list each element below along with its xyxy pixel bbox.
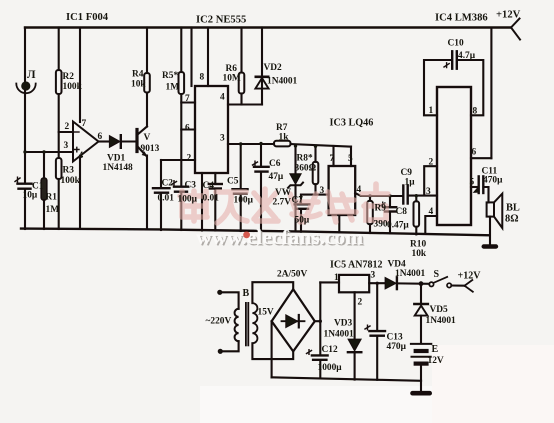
svg-text:S: S [434,269,440,280]
svg-text:Л: Л [27,69,36,81]
svg-text:12V: 12V [428,356,444,366]
bridge rectifier 2A/50V [272,289,315,351]
capacitor C7 [295,195,310,232]
diode VD4 [385,277,397,289]
node +12V supply terminal [511,19,520,40]
svg-text:3: 3 [426,187,431,197]
resistor R3 [56,158,62,229]
svg-text:VW: VW [275,188,292,198]
svg-text:IC5 AN7812: IC5 AN7812 [330,260,383,271]
svg-text:3: 3 [320,186,325,196]
capacitor C13 [365,283,385,380]
svg-text:VD2: VD2 [264,63,283,73]
svg-text:4: 4 [429,207,434,217]
svg-text:470μ: 470μ [387,342,407,352]
capacitor C5 [233,144,248,231]
wire IC2 pin 1 to ground rail [201,173,203,231]
svg-text:IC4 LM386: IC4 LM386 [435,13,488,24]
capacitor C6 [253,143,269,231]
wire IC5 pin 3 out [369,282,385,284]
capacitor C11 [474,176,484,193]
wire IC2 pin 4 [228,103,262,105]
wire IC3 pin 4 output [355,193,403,196]
ground (speaker) [484,244,496,248]
resistor R8 [313,146,319,195]
node mains terminal top [218,290,222,294]
resistor R4 [144,28,150,127]
node mains terminal bottom [218,349,222,353]
wire secondary top to bridge [252,282,293,303]
svg-text:2A/50V: 2A/50V [277,270,307,280]
svg-text:1000μ: 1000μ [318,363,343,373]
svg-text:R2: R2 [63,72,75,82]
resistor R2 [56,28,62,159]
wire microphone down to node A [24,91,26,153]
svg-text:3: 3 [220,134,225,144]
wire mains top to transformer [222,292,239,309]
wire op-amp output pin 6 [99,140,110,142]
transistor V 9013 [137,127,147,157]
wire speaker to ground [489,217,491,245]
IC3 LQ46 body [329,166,356,215]
svg-text:1μ: 1μ [405,178,416,188]
svg-text:R7: R7 [276,123,288,133]
svg-text:4: 4 [79,151,84,161]
wire IC2 pin 7 [181,101,195,103]
watermark brush characters [180,184,388,223]
svg-text:IC2 NE555: IC2 NE555 [196,15,246,26]
svg-text:1M: 1M [46,205,60,215]
svg-text:R5*: R5* [162,71,178,81]
speaker BL [487,194,503,228]
wire R7 to IC3 [291,144,352,147]
svg-text:0.01: 0.01 [203,194,220,204]
svg-text:R3: R3 [63,166,75,176]
resistor R1 [41,152,47,229]
svg-text:VD4: VD4 [388,260,407,270]
resistor R5 [179,28,185,187]
svg-text:1N4148: 1N4148 [103,163,134,173]
capacitor C9 (series) [403,186,407,204]
svg-text:0.47μ: 0.47μ [387,221,409,231]
battery E 12V [411,344,431,391]
svg-text:6: 6 [98,132,103,142]
wire IC5 pin 2 down [354,292,356,339]
diode VD1 [110,135,121,148]
svg-text:3: 3 [64,141,69,151]
svg-text:3: 3 [371,271,376,281]
diode VD3 [348,339,361,379]
wire rail to microphone [24,28,26,82]
watermark www.elecfans.com [196,225,365,251]
svg-text:4.7μ: 4.7μ [458,51,476,61]
svg-text:IC1 F004: IC1 F004 [66,12,109,23]
node junction dots [23,142,418,323]
wire VD4 to switch [398,282,429,284]
capacitor C1 [15,152,32,229]
svg-text:4: 4 [357,185,362,195]
wire VD1 to transistor base [122,140,136,142]
svg-text:5: 5 [470,178,475,188]
svg-text:E: E [432,344,439,355]
capacitor C2 [153,160,170,230]
wire transistor emitter to ground rail [146,156,148,230]
resistor R6 [239,28,245,105]
wire node A to op-amp pin 3 [25,151,73,153]
wire IC4 pin 4 to ground rail [425,216,437,234]
svg-text:VD3: VD3 [334,319,353,329]
wire C9 to IC4 pin 3 [408,195,437,197]
wire C10 loop pin 1 [424,60,451,115]
wire IC4 pin 6 [471,157,491,159]
svg-text:10k: 10k [131,80,146,90]
capacitor C10 [444,51,457,68]
svg-text:C5: C5 [227,177,239,187]
svg-text:1: 1 [429,106,434,116]
svg-text:2: 2 [358,298,363,308]
transformer core [246,303,248,346]
transformer B secondary winding [252,303,257,343]
node VD5 junction [419,282,423,286]
wire IC3 pin 5 [350,147,352,166]
wire IC2 pin 6 [181,128,195,130]
svg-text:R10: R10 [410,240,426,250]
svg-text:1N4001: 1N4001 [395,269,426,279]
wire C12 to IC5 pin 1 [320,281,339,283]
transformer B primary winding [235,309,239,341]
op-amp IC1a [73,122,99,162]
svg-text:8: 8 [473,107,478,117]
wire C11 to speaker [484,187,489,202]
svg-text:B: B [243,288,250,299]
resistor R10 [414,196,420,235]
svg-text:BL: BL [506,203,520,214]
wire IC2 to rail left [190,28,192,87]
wire IC2 pin 8 to rail [207,28,209,87]
svg-text:C7: C7 [292,196,304,206]
IC2 NE555 body [195,86,228,173]
diode VD5 [414,284,427,344]
svg-text:V: V [144,133,151,143]
wire C10 loop pin 8 [459,60,484,115]
svg-text:2.7V: 2.7V [273,198,292,208]
wire switch to +12V out [451,284,464,286]
svg-text:390: 390 [374,220,388,230]
capacitor C4 [209,173,222,231]
svg-text:R8*: R8* [297,154,313,164]
svg-text:R4: R4 [132,70,144,80]
wire ground rail [21,229,490,236]
zener diode VW [288,145,303,231]
svg-text:7: 7 [82,119,87,129]
svg-text:1k: 1k [279,133,290,143]
svg-text:1N4001: 1N4001 [426,316,457,326]
wire mains bottom to transformer [222,341,239,351]
capacitor C12 [307,350,328,379]
svg-text:C12: C12 [322,345,338,355]
wire op-amp pin 4 to ground rail [79,156,81,229]
wire IC2 pin 3 output [228,143,274,145]
svg-text:5: 5 [348,154,353,164]
IC4 LM386 body [437,87,471,225]
svg-text:10M: 10M [223,74,241,84]
svg-text:VD1: VD1 [107,154,126,164]
svg-text:100k: 100k [63,82,83,92]
switch S [429,277,451,288]
svg-text:6: 6 [185,124,190,134]
svg-text:6: 6 [472,148,477,158]
svg-text:2: 2 [65,122,70,132]
svg-text:7: 7 [330,154,335,164]
svg-text:R9: R9 [375,204,387,214]
wire IC3 pin 3 [301,194,329,196]
resistor R9 [367,196,373,233]
svg-text:1M: 1M [166,83,180,93]
capacitor C3 [172,181,189,230]
watermark red dot [243,231,250,238]
wire psu ground rail [272,377,421,381]
svg-text:9013: 9013 [141,144,160,154]
svg-text:~220V: ~220V [206,317,232,327]
svg-text:+12V: +12V [458,271,482,282]
svg-text:15V: 15V [258,308,274,318]
svg-text:8: 8 [200,73,205,83]
svg-text:C3: C3 [185,181,197,191]
wire bridge minus to psu ground rail [271,321,273,377]
svg-text:R1: R1 [46,193,58,203]
svg-text:IC3 LQ46: IC3 LQ46 [330,118,374,129]
svg-text:C6: C6 [269,159,281,169]
wire IC4 pin 2 [424,166,437,195]
wire IC2 pin 2 [161,159,195,161]
microphone Л [16,81,35,93]
wire secondary bottom to bridge [252,343,293,359]
wire IC4 pin 5 [471,186,477,188]
svg-text:www.elecfans.com: www.elecfans.com [196,225,363,249]
svg-text:4: 4 [220,93,225,103]
svg-text:470μ: 470μ [483,176,503,186]
svg-text:C4: C4 [203,181,215,191]
svg-text:C10: C10 [448,39,464,49]
wire op-amp pin 2 [59,131,73,133]
wire op-amp pin 7 to rail [79,28,81,123]
svg-text:7: 7 [185,94,190,104]
wire bridge plus to C12 [315,320,321,322]
svg-text:2: 2 [187,154,192,164]
svg-text:1N4001: 1N4001 [267,77,298,87]
svg-text:8Ω: 8Ω [505,214,519,225]
svg-text:VD5: VD5 [430,305,449,315]
wire IC3 bottom pin to ground [338,215,340,232]
svg-text:100μ: 100μ [178,195,198,205]
capacitor C8 [381,196,397,233]
svg-text:50μ: 50μ [295,216,310,226]
svg-text:100μ: 100μ [234,196,254,206]
svg-text:10k: 10k [412,249,427,259]
wire +12V to IC4 pin 6 [490,28,492,159]
svg-text:C9: C9 [401,168,413,178]
wire C12 node vertical [319,282,321,355]
svg-text:C13: C13 [387,333,403,343]
node +12V output terminal [465,280,473,292]
svg-text:1N4001: 1N4001 [324,330,355,340]
diode VD2 [255,28,268,105]
svg-text:10μ: 10μ [23,191,38,201]
svg-text:C2: C2 [162,179,174,189]
svg-text:0.01: 0.01 [158,194,175,204]
svg-text:1: 1 [334,273,339,283]
svg-text:360Ω: 360Ω [295,164,317,174]
svg-text:R6: R6 [226,64,238,74]
ground (battery) [413,391,430,396]
svg-text:2: 2 [429,158,434,168]
wire IC3 pin 7 [332,146,334,166]
IC5 AN7812 body [339,275,369,292]
svg-text:100k: 100k [61,176,81,186]
svg-text:47μ: 47μ [269,172,284,182]
resistor R7 [274,141,291,147]
svg-text:C8: C8 [396,207,408,217]
wire top +12V rail [25,26,511,28]
svg-text:+12V: +12V [496,10,521,21]
